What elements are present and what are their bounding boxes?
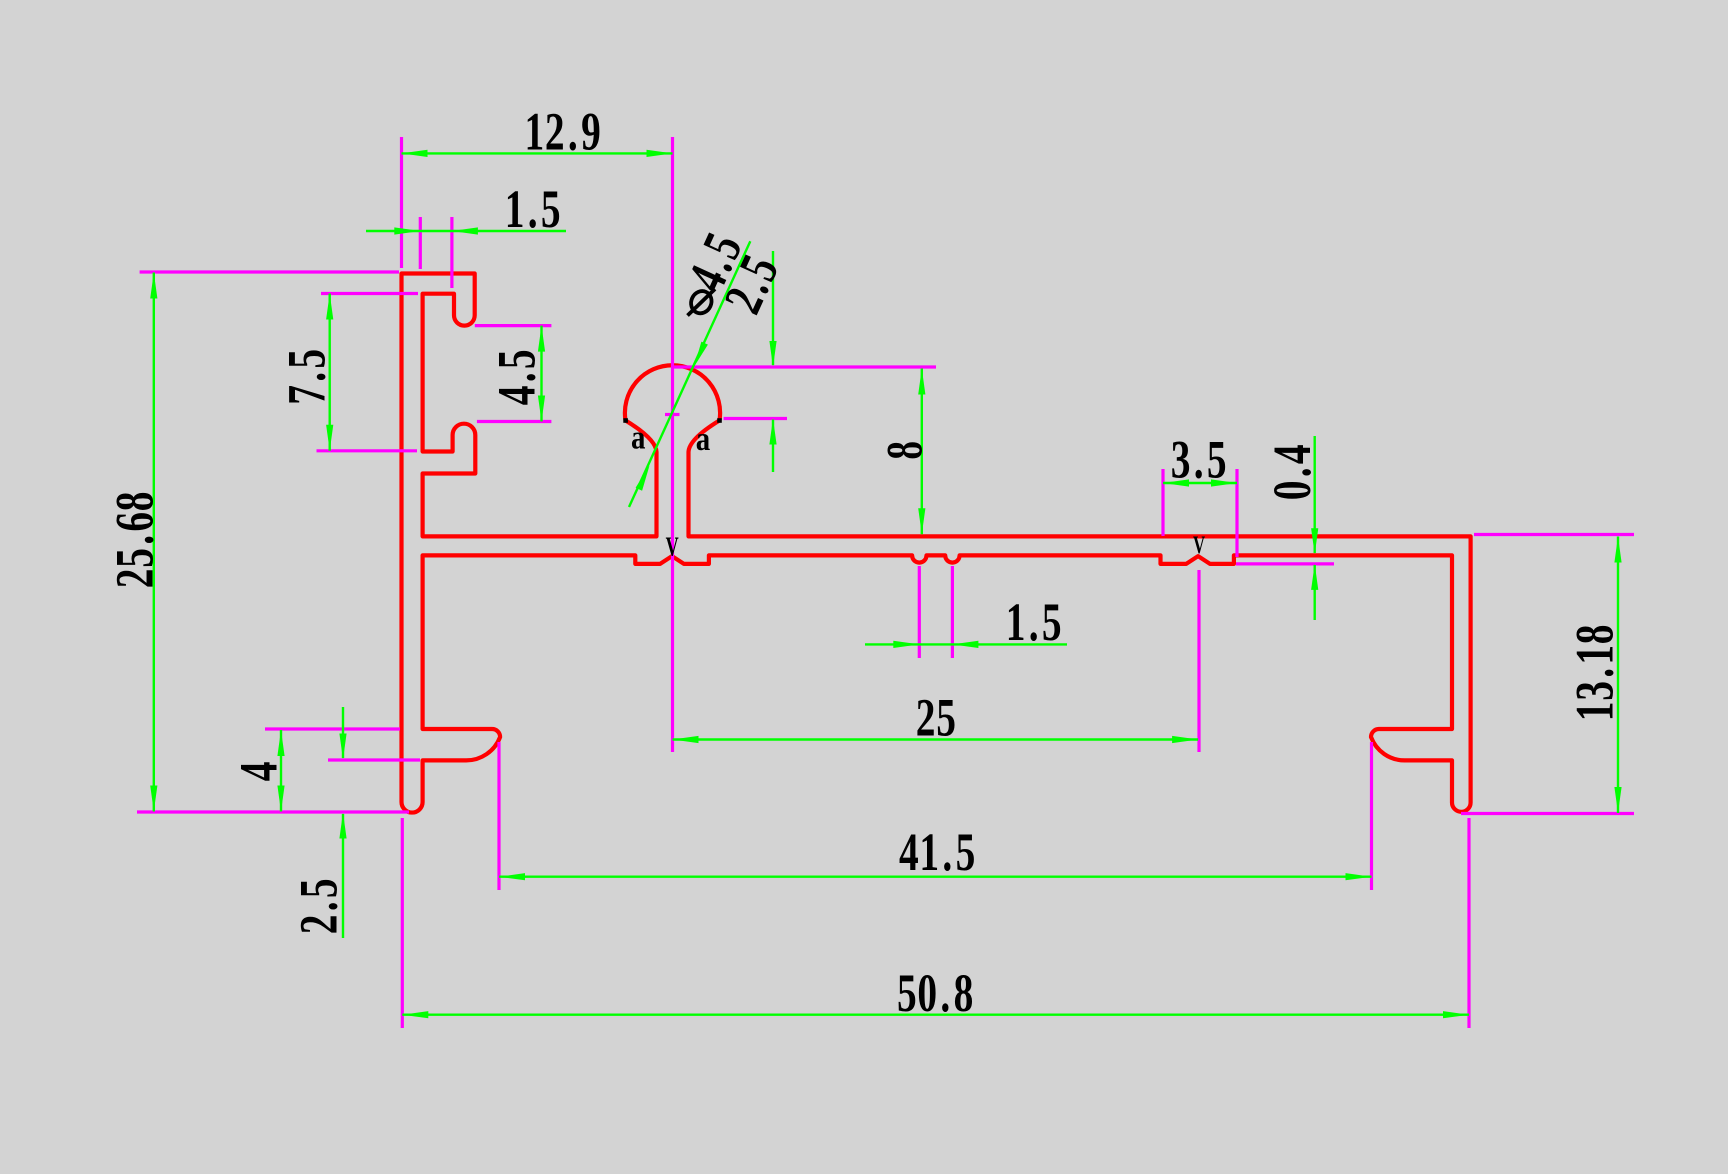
dimension 1.5 (top) (366, 230, 566, 232)
dimension 0.4 (1313, 436, 1315, 553)
extension line: 50.8 left (401, 818, 404, 1028)
extension line: 0.4 shelf (1236, 562, 1334, 565)
dimension 4 (280, 730, 282, 812)
dimension 25 (673, 738, 1199, 740)
svg-text:12.9: 12.9 (524, 103, 601, 162)
svg-text:13.18: 13.18 (1566, 624, 1625, 721)
extension line: 13.18 top (1474, 533, 1634, 536)
dimension 4.5 (540, 326, 542, 422)
extension line: 4.5 top (475, 324, 552, 327)
svg-text:25: 25 (916, 689, 957, 748)
extension line: notch 1.5 right (951, 566, 954, 658)
extension line: 25 right (1197, 570, 1200, 752)
svg-text:V: V (1193, 531, 1206, 559)
center line: tube axis / 12.9 right ext (671, 137, 674, 752)
center mark: dome center cross (665, 413, 680, 416)
extension line: 13.18 bottom (1461, 812, 1634, 815)
extension line: 25.68 bottom (137, 810, 409, 813)
dimension 7.5 (329, 294, 331, 451)
svg-text:0.4: 0.4 (1263, 444, 1322, 501)
svg-text:7.5: 7.5 (278, 348, 337, 405)
extension line: 12.9 left / profile left face (400, 137, 403, 268)
svg-text:V: V (666, 532, 679, 561)
dimension 25.68 (153, 273, 155, 812)
svg-text:4.5: 4.5 (488, 349, 547, 406)
extension line: 50.8 right (1467, 818, 1470, 1028)
dimension 8 (921, 369, 923, 535)
svg-text:1.5: 1.5 (505, 180, 562, 239)
node: dome tangent point right (717, 418, 722, 423)
dimension 3.5 (1163, 482, 1237, 484)
extension line: 4.5 bottom (477, 420, 552, 423)
extension line: 3.5 left (1161, 469, 1164, 536)
extension line: 2.5 bottom-left top (lip bottom face) (328, 758, 420, 761)
dimension 41.5 (499, 876, 1372, 878)
svg-text:41.5: 41.5 (899, 823, 976, 882)
dimension 1.5 (middle notches) (865, 643, 1067, 645)
dimension 50.8 (402, 1014, 1469, 1016)
svg-text:4: 4 (230, 761, 289, 781)
extension line: 7.5 bottom (317, 449, 418, 452)
dimension 13.18 (1617, 537, 1619, 814)
dimension 12.9 (402, 152, 673, 154)
svg-text:25.68: 25.68 (106, 491, 165, 588)
leader: diameter 4.5 diagonal (629, 241, 750, 507)
svg-text:a: a (631, 418, 646, 456)
extension line: 41.5 left (lip tip) (497, 742, 500, 890)
svg-text:2.5: 2.5 (290, 878, 349, 935)
extension line: dome bottom (2.5) (724, 417, 787, 420)
svg-text:a: a (696, 420, 711, 458)
extension line: notch 1.5 left (918, 566, 921, 658)
svg-text:1.5: 1.5 (1006, 593, 1063, 652)
node: dome tangent point left (623, 418, 628, 423)
dimension 2.5 (dome) (772, 251, 774, 365)
svg-text:8: 8 (876, 440, 933, 459)
extension line: 1.5 right (hook lip face) (450, 217, 453, 288)
dimension 2.5 (bottom-left) (342, 707, 344, 758)
extension line: 4-dim top (lip top face) (265, 727, 400, 730)
svg-text:50.8: 50.8 (897, 964, 974, 1023)
wire: aluminium profile outline (closed red contour) (402, 274, 1471, 813)
extension line: 7.5 top (321, 292, 418, 295)
extension line: dome top (2.5/8) (673, 365, 936, 368)
extension line: 25.68 top (140, 270, 399, 273)
extension line: 3.5 right (1235, 469, 1238, 557)
extension line: 1.5 left (rail inner face) (419, 217, 422, 269)
svg-text:3.5: 3.5 (1171, 431, 1228, 490)
extension line: 41.5 right (lip tip) (1370, 742, 1373, 890)
